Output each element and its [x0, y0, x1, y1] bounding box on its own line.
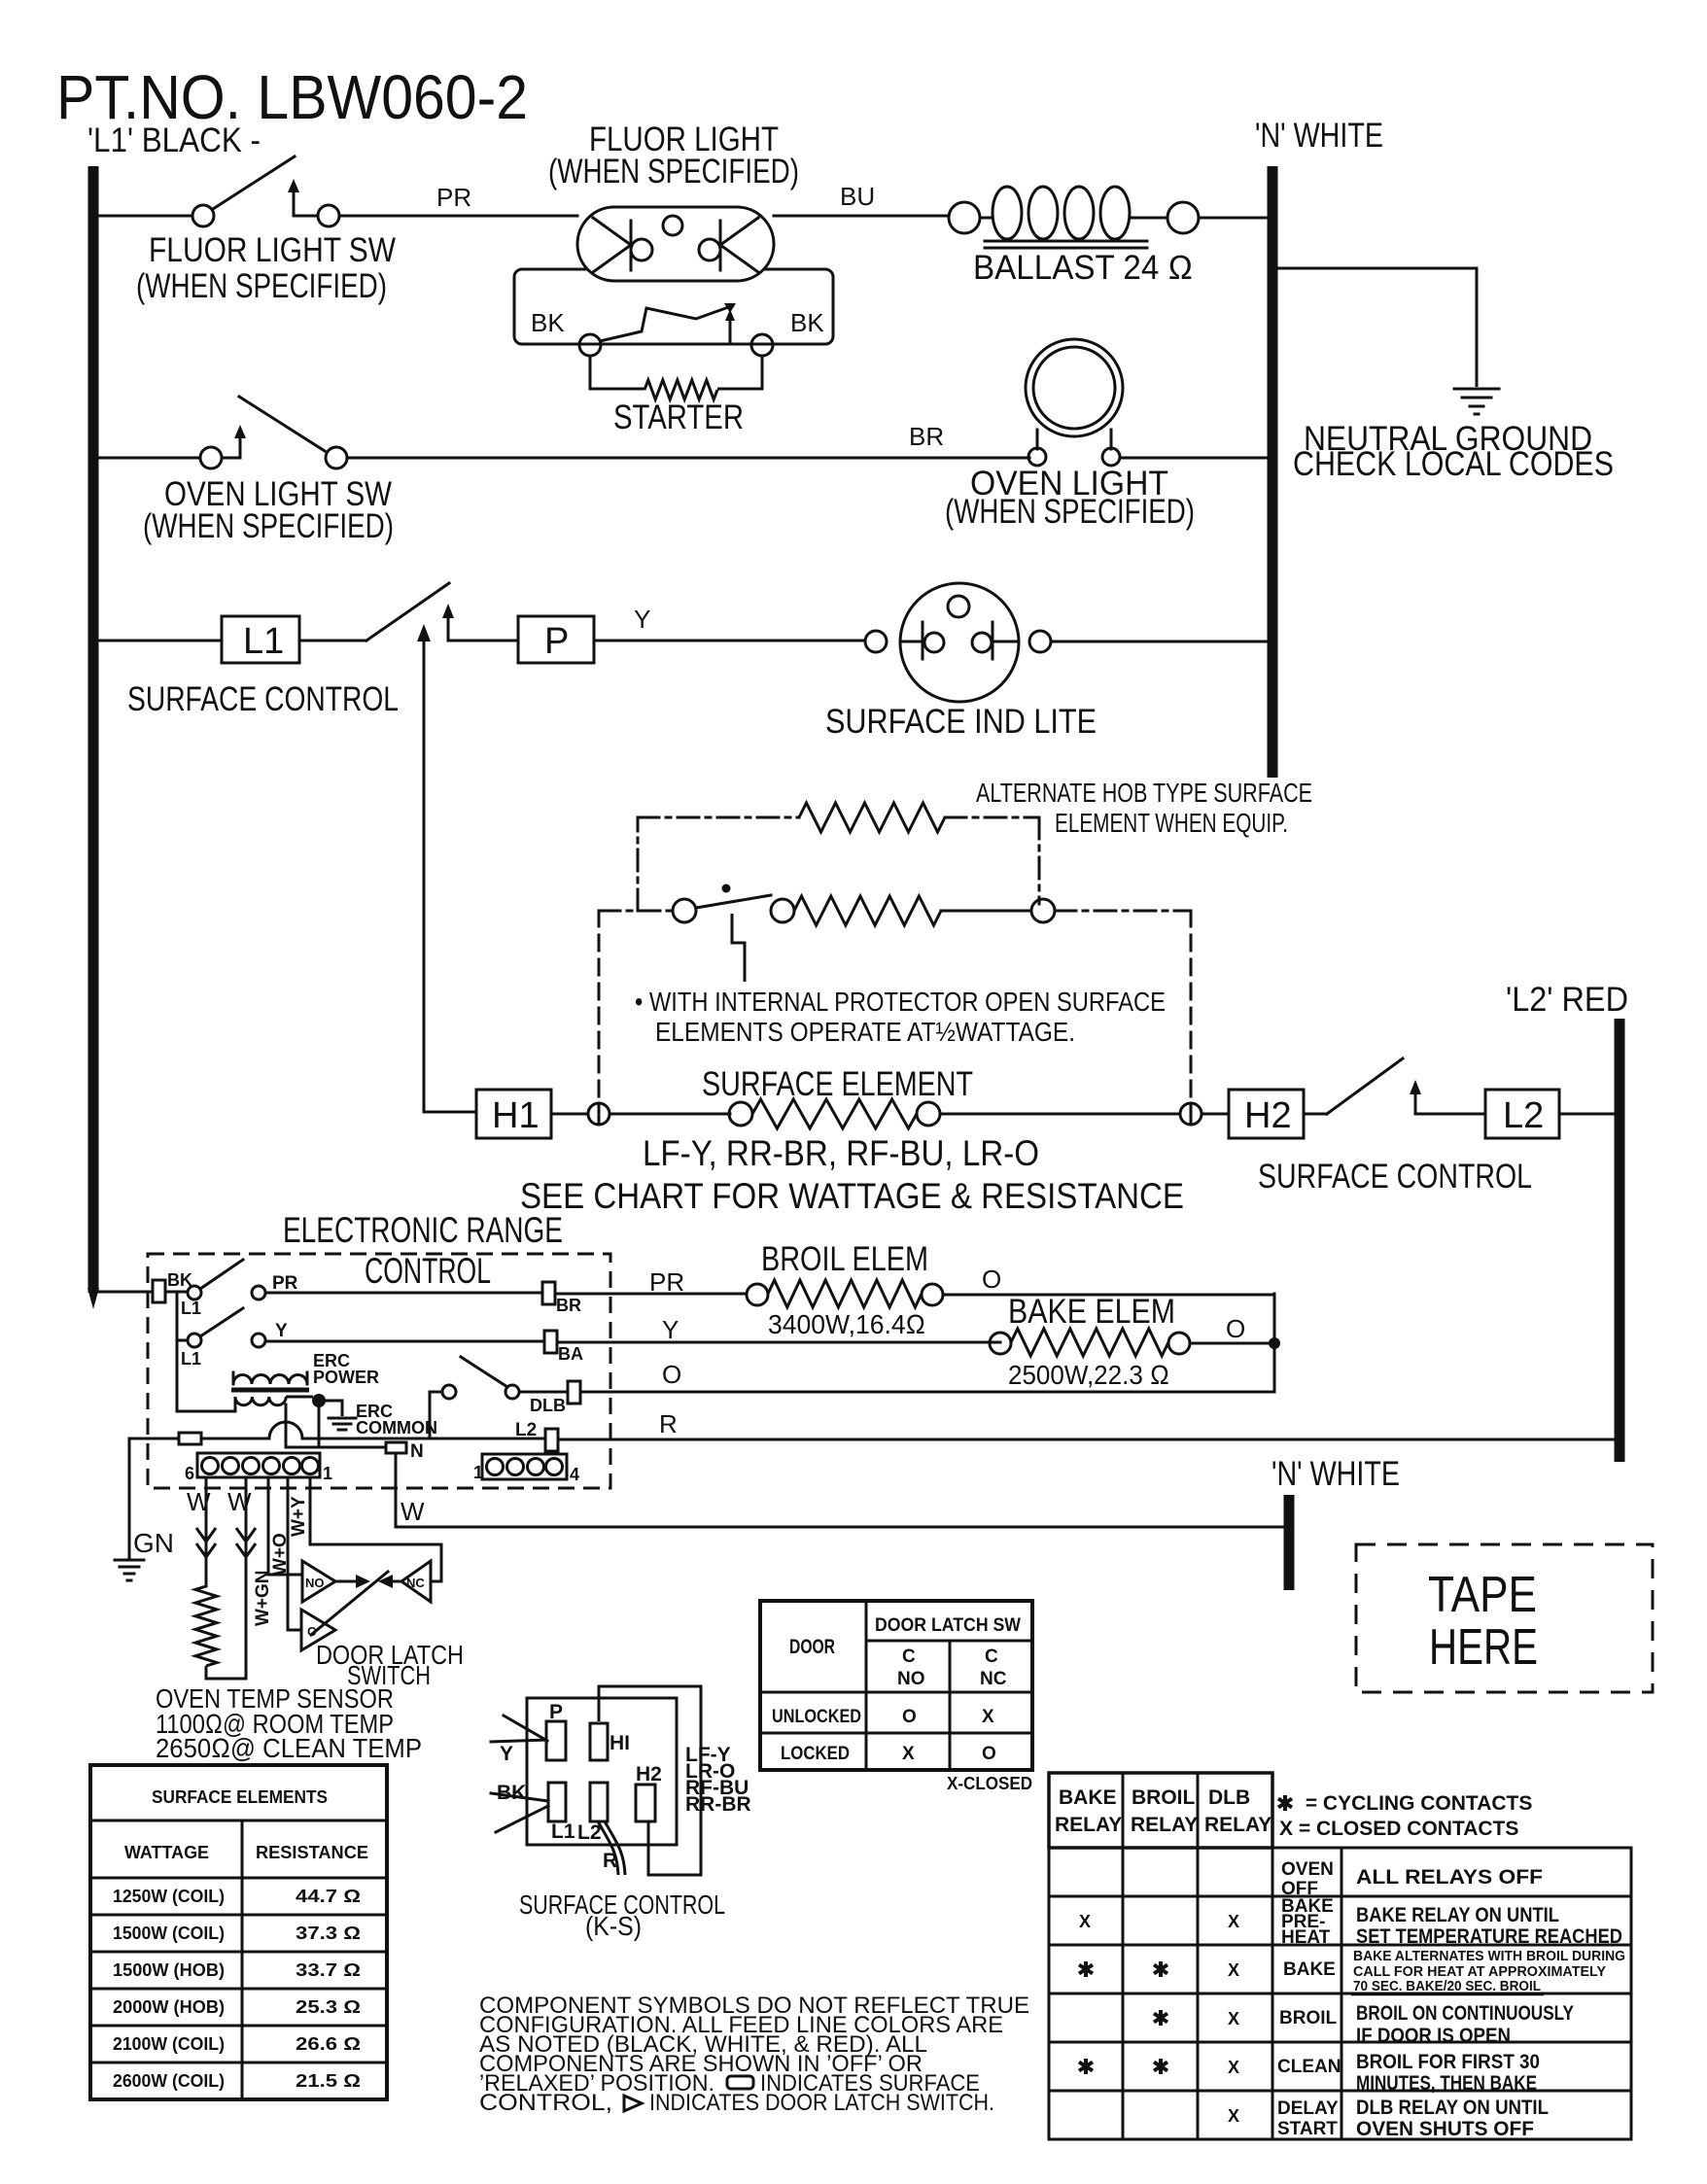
internal protector hook [732, 914, 745, 982]
wire L1 block to switch [299, 640, 366, 642]
wire ballast to N bus [1199, 217, 1268, 220]
svg-text:BALLAST 24 Ω: BALLAST 24 Ω [973, 249, 1193, 287]
lamp pin circle (top center) [663, 216, 682, 235]
svg-text:DLB: DLB [530, 1396, 566, 1415]
svg-text:PR: PR [436, 183, 471, 212]
lead BK to pin L1 [491, 1782, 548, 1832]
block H1 [476, 1090, 551, 1138]
ground GN [115, 1560, 144, 1580]
svg-text:= CYCLING CONTACTS: = CYCLING CONTACTS [1300, 1792, 1532, 1815]
terminal BR [542, 1282, 555, 1304]
svg-text:HERE: HERE [1429, 1619, 1538, 1676]
svg-text:HI: HI [610, 1732, 630, 1754]
svg-text:BAKE: BAKE [1059, 1786, 1117, 1809]
switch surface control pole 2 [1304, 1058, 1431, 1114]
svg-text:44.7 Ω: 44.7 Ω [296, 1887, 361, 1906]
svg-text:1250W (COIL): 1250W (COIL) [113, 1887, 225, 1906]
wire PR: switch to fluor lamp [339, 215, 577, 218]
svg-text:WATTAGE: WATTAGE [124, 1843, 209, 1862]
svg-text:BR: BR [909, 422, 944, 451]
starter box outline [514, 269, 833, 344]
svg-text:Y: Y [500, 1743, 513, 1765]
transformer ERC secondary [235, 1397, 286, 1405]
svg-text:DLB RELAY ON UNTIL: DLB RELAY ON UNTIL [1356, 2097, 1549, 2119]
svg-text:6: 6 [185, 1464, 194, 1483]
wire R row out of box to L2 bus [558, 1439, 1617, 1441]
svg-text:21.5 Ω: 21.5 Ω [296, 2071, 361, 2091]
box TAPE HERE (dashed) [1356, 1544, 1653, 1692]
wire pin1 (W+Y) to NC contact [310, 1477, 441, 1581]
arrow at P wire start [442, 604, 465, 641]
door latch contact NC (triangle) [401, 1561, 431, 1602]
svg-text:X: X [1228, 2058, 1239, 2077]
marks row CLEAN [1079, 2058, 1239, 2077]
svg-text:BK: BK [531, 308, 565, 337]
svg-text:O: O [902, 1707, 917, 1727]
resistor surface element (switched row) [794, 896, 941, 925]
svg-text:ALTERNATE HOB TYPE SURFACE: ALTERNATE HOB TYPE SURFACE [976, 778, 1312, 808]
legend cycling contacts [1278, 1792, 1532, 1815]
wire L1 bus to L1 block [98, 640, 222, 642]
svg-text:NC: NC [980, 1669, 1007, 1689]
junction circle on dashed edge (left) [588, 1103, 610, 1125]
svg-text:L1: L1 [551, 1820, 575, 1843]
resistor alternate HOB surface element [799, 803, 945, 832]
svg-text:SWITCH: SWITCH [347, 1660, 431, 1690]
svg-text:SURFACE CONTROL: SURFACE CONTROL [127, 680, 399, 718]
svg-text:Y: Y [275, 1321, 288, 1341]
svg-text:(WHEN SPECIFIED): (WHEN SPECIFIED) [548, 153, 799, 191]
svg-text:SURFACE CONTROL: SURFACE CONTROL [1258, 1158, 1532, 1196]
svg-text:C: C [902, 1647, 916, 1667]
svg-text:X: X [1228, 2106, 1239, 2126]
switch DLB [430, 1357, 519, 1439]
wire Y row to BA terminal [265, 1340, 544, 1343]
arrow chevrons left wire [196, 1528, 216, 1557]
svg-text:L2: L2 [577, 1821, 602, 1844]
wire L2 block to L2 bus [1559, 1113, 1615, 1116]
svg-text:OVEN: OVEN [1281, 1859, 1334, 1880]
svg-text:O: O [1226, 1314, 1245, 1343]
svg-text:NC: NC [406, 1576, 425, 1590]
svg-text:INDICATES DOOR LATCH SWITCH.: INDICATES DOOR LATCH SWITCH. [649, 2090, 994, 2116]
svg-text:R: R [659, 1409, 678, 1439]
switch FLUOR LIGHT SW [192, 156, 339, 226]
svg-text:BR: BR [556, 1296, 581, 1315]
wire R from pin L2 [598, 1821, 618, 1875]
wire L1 feed to secondary [177, 1397, 235, 1411]
wire actuator link corner to H1 [424, 1111, 476, 1114]
connector 4-pin (door latch) [482, 1454, 567, 1479]
contact circle (right, switch row) [1031, 899, 1055, 922]
table SURFACE ELEMENTS [90, 1765, 387, 2099]
arrow NO output [335, 1575, 370, 1588]
svg-text:O: O [982, 1265, 1001, 1294]
wire left to GN line [129, 1438, 179, 1440]
svg-text:2650Ω@ CLEAN TEMP: 2650Ω@ CLEAN TEMP [156, 1733, 422, 1763]
terminal N [386, 1442, 406, 1453]
svg-text:FLUOR LIGHT SW: FLUOR LIGHT SW [149, 231, 396, 269]
junction dot bake/common [1269, 1337, 1280, 1349]
wire O row out of box [580, 1391, 1274, 1394]
bus N WHITE (right vertical neutral) [1268, 166, 1278, 778]
switch ERC L1/Y [177, 1308, 265, 1347]
svg-text:SURFACE IND LITE: SURFACE IND LITE [825, 703, 1097, 741]
table relay header BAKE/BROIL/DLB RELAY [1049, 1773, 1272, 1848]
wire N from ERC to bottom bus [396, 1453, 1284, 1527]
lamp left electrode [593, 218, 652, 272]
wire H1 to element [551, 1113, 730, 1116]
svg-text:POWER: POWER [313, 1368, 379, 1387]
svg-text:'L1' BLACK -: 'L1' BLACK - [87, 121, 261, 159]
svg-text:BK: BK [790, 308, 824, 337]
pin H1 [590, 1723, 630, 1760]
resistor starter (bottom loop) [590, 356, 644, 389]
table relay mode grid [1049, 1848, 1631, 2139]
block H2 [1229, 1090, 1304, 1138]
svg-text:1500W (COIL): 1500W (COIL) [113, 1924, 225, 1943]
svg-text:1500W (HOB): 1500W (HOB) [113, 1960, 225, 1980]
resistor (left small block) [179, 1433, 201, 1444]
svg-text:CONTROL: CONTROL [365, 1251, 491, 1291]
terminal L2 [545, 1429, 558, 1451]
svg-text:25.3 Ω: 25.3 Ω [296, 1997, 361, 2017]
svg-text:RESISTANCE: RESISTANCE [256, 1843, 368, 1862]
wire PR row to BR terminal [265, 1292, 542, 1295]
svg-text:DELAY: DELAY [1277, 2098, 1339, 2119]
connector SURFACE CONTROL (K-S) body [527, 1698, 677, 1845]
svg-text:OVEN SHUTS OFF: OVEN SHUTS OFF [1356, 2118, 1534, 2140]
wire secondary to junction [286, 1396, 313, 1399]
svg-text:RR-BR: RR-BR [685, 1793, 751, 1816]
svg-text:DLB: DLB [1208, 1786, 1250, 1809]
resistor BROIL ELEM [747, 1280, 943, 1307]
ground neutral (earth symbol) [1454, 389, 1499, 414]
svg-text:C: C [985, 1647, 998, 1667]
wire GN vertical [128, 1439, 131, 1558]
svg-text:(K-S): (K-S) [585, 1911, 642, 1941]
wire arrow to L2 block [1431, 1113, 1485, 1116]
wire element common vertical [1273, 1294, 1276, 1392]
wire junction to ERC COMMON ground [319, 1401, 342, 1416]
svg-text:P: P [544, 621, 569, 662]
wire bake to common [1190, 1342, 1274, 1345]
wire R row with hop over secondary feed [201, 1422, 430, 1439]
arrow chevrons right wire [236, 1528, 256, 1557]
svg-text:MINUTES, THEN BAKE: MINUTES, THEN BAKE [1356, 2072, 1537, 2095]
svg-text:H2: H2 [636, 1763, 662, 1785]
svg-text:X: X [902, 1744, 915, 1764]
svg-text:33.7 Ω: 33.7 Ω [296, 1960, 361, 1980]
svg-text:N: N [410, 1441, 424, 1462]
pin L1 [548, 1783, 575, 1843]
transformer ERC POWER primary [233, 1375, 307, 1384]
svg-text:'N' WHITE: 'N' WHITE [1272, 1455, 1400, 1493]
svg-text:LF-Y, RR-BR, RF-BU, LR-O: LF-Y, RR-BR, RF-BU, LR-O [643, 1133, 1039, 1173]
svg-text:SURFACE ELEMENT: SURFACE ELEMENT [702, 1065, 973, 1103]
wire sensor bottom U [206, 1666, 246, 1679]
dashed box ELECTRONIC RANGE CONTROL [148, 1254, 610, 1488]
svg-text:37.3 Ω: 37.3 Ω [296, 1924, 361, 1943]
wire element to H2 [940, 1113, 1229, 1116]
svg-text:'N' WHITE: 'N' WHITE [1255, 117, 1383, 155]
svg-text:BK: BK [497, 1782, 526, 1804]
pin P [546, 1701, 566, 1760]
svg-text:LOCKED: LOCKED [781, 1744, 850, 1764]
svg-text:Y: Y [634, 605, 650, 634]
switch surface control pole 1 (blade) [366, 583, 449, 641]
block L2 [1485, 1090, 1559, 1138]
wire sensor right (pin 4) [245, 1477, 248, 1679]
starter contact circles [579, 334, 601, 356]
wire oven light to N bus [1120, 457, 1268, 460]
block L1 (surface control contact) [222, 616, 299, 663]
svg-text:W: W [227, 1487, 252, 1516]
svg-text:W+O: W+O [270, 1533, 291, 1576]
svg-text:L2: L2 [1503, 1095, 1544, 1136]
dashed box: surface elements group [599, 911, 1191, 1104]
svg-text:R: R [603, 1850, 617, 1872]
svg-text:X: X [1228, 1960, 1239, 1980]
svg-text:4: 4 [570, 1465, 579, 1484]
svg-text:C: C [307, 1624, 317, 1639]
svg-text:• WITH INTERNAL PROTECTOR OPEN: • WITH INTERNAL PROTECTOR OPEN SURFACE [635, 987, 1166, 1017]
svg-text:26.6 Ω: 26.6 Ω [296, 2034, 361, 2054]
wire P to surface ind lite [465, 640, 518, 642]
svg-text:2600W (COIL): 2600W (COIL) [113, 2071, 225, 2091]
wire N row horizontal [286, 1446, 386, 1449]
surface control actuator link (long arrow to ERC area) [417, 624, 431, 1112]
connector strip 6-pin [197, 1453, 320, 1477]
pin H2 [636, 1763, 662, 1821]
marks row BAKE [1079, 1960, 1239, 1980]
svg-text:L1: L1 [181, 1349, 201, 1369]
svg-text:CHECK LOCAL CODES: CHECK LOCAL CODES [1293, 445, 1614, 483]
lamp right electrode [699, 218, 758, 272]
lead Y to pin P [491, 1716, 547, 1765]
wire H1 to H2 outer loop [599, 1686, 701, 1875]
svg-text:CONTROL,: CONTROL, [479, 2090, 612, 2116]
svg-text:PR: PR [272, 1273, 298, 1294]
svg-text:HEAT: HEAT [1281, 1927, 1331, 1948]
svg-text:BU: BU [840, 182, 875, 211]
svg-text:2100W (COIL): 2100W (COIL) [113, 2034, 225, 2054]
wire secondary bottom down [285, 1404, 288, 1447]
svg-text:BAKE: BAKE [1283, 1959, 1336, 1980]
wire sensor left (pin 6) [205, 1477, 208, 1586]
svg-text:(WHEN SPECIFIED): (WHEN SPECIFIED) [945, 493, 1195, 531]
svg-text:H1: H1 [492, 1095, 540, 1136]
svg-text:CALL FOR HEAT AT APPROXIMATELY: CALL FOR HEAT AT APPROXIMATELY [1353, 1964, 1606, 1980]
wire L1 bus to BK terminal [98, 1291, 153, 1294]
svg-text:L1: L1 [243, 621, 284, 662]
transformer core [231, 1388, 309, 1393]
svg-text:2000W (HOB): 2000W (HOB) [113, 1997, 225, 2017]
wire PR row out of box [555, 1293, 747, 1296]
svg-text:RELAY: RELAY [1131, 1814, 1198, 1836]
svg-text:BROIL: BROIL [1132, 1786, 1196, 1809]
svg-text:X = CLOSED CONTACTS: X = CLOSED CONTACTS [1279, 1818, 1518, 1840]
svg-text:BROIL ELEM: BROIL ELEM [761, 1240, 928, 1278]
svg-text:1: 1 [473, 1463, 483, 1482]
resistor SURFACE ELEMENT (main) [729, 1099, 940, 1128]
wire L1 bus to oven light switch [98, 457, 200, 460]
svg-text:X-CLOSED: X-CLOSED [947, 1774, 1032, 1793]
svg-text:BAKE RELAY ON UNTIL: BAKE RELAY ON UNTIL [1356, 1904, 1559, 1926]
svg-text:BAKE ALTERNATES WITH BROIL DUR: BAKE ALTERNATES WITH BROIL DURING [1353, 1949, 1625, 1964]
svg-text:ALL RELAYS OFF: ALL RELAYS OFF [1356, 1866, 1543, 1889]
wire pin3 (W+O) to NO contact [268, 1477, 302, 1575]
starter actuator arrow [729, 319, 732, 342]
ground ERC COMMON [329, 1418, 356, 1430]
junction dot ERC common [312, 1394, 326, 1407]
wire BR: switch to oven light [347, 457, 1029, 460]
inductor BALLAST [949, 187, 1199, 248]
svg-text:ELEMENT WHEN EQUIP.: ELEMENT WHEN EQUIP. [1055, 808, 1288, 838]
door latch blade (common) [311, 1572, 388, 1635]
terminal BK [153, 1280, 165, 1302]
lamp SURFACE IND LITE [865, 583, 1051, 702]
svg-text:H2: H2 [1244, 1095, 1292, 1136]
svg-text:ELEMENTS OPERATE AT½WATTAGE.: ELEMENTS OPERATE AT½WATTAGE. [655, 1017, 1075, 1047]
wire BU: lamp to ballast [774, 215, 948, 218]
svg-text:BA: BA [558, 1344, 583, 1364]
svg-text:RELAY: RELAY [1204, 1814, 1272, 1836]
svg-text:W+Y: W+Y [289, 1496, 309, 1537]
svg-text:X: X [1079, 1912, 1091, 1931]
svg-text:SET TEMPERATURE REACHED: SET TEMPERATURE REACHED [1356, 1925, 1622, 1948]
svg-text:ELECTRONIC RANGE: ELECTRONIC RANGE [283, 1210, 563, 1250]
svg-text:1: 1 [323, 1464, 332, 1483]
svg-text:P: P [549, 1701, 563, 1723]
lamp OVEN LIGHT (double circle) [1026, 339, 1123, 466]
bus L1 BLACK (left vertical feeder) [88, 166, 99, 1293]
svg-text:IF DOOR IS OPEN: IF DOOR IS OPEN [1356, 2025, 1511, 2047]
terminal DLB [568, 1381, 580, 1404]
wire Y row out of box [557, 1341, 1000, 1344]
wire L1 bus to fluor light switch [98, 215, 192, 218]
starter bimetal blade [600, 305, 734, 341]
junction circle on dashed edge (right) [1180, 1103, 1202, 1125]
bus N WHITE (bottom) [1284, 1495, 1295, 1590]
door latch contact NO (triangle) [302, 1561, 335, 1602]
svg-text:BAKE ELEM: BAKE ELEM [1008, 1293, 1175, 1331]
svg-text:X: X [982, 1707, 994, 1727]
wire pin2 (W+GN) to C contact [288, 1477, 301, 1630]
svg-text:PR: PR [649, 1267, 684, 1297]
door latch contact C (triangle) [301, 1610, 335, 1650]
svg-text:STARTER: STARTER [613, 399, 744, 436]
terminal BA [544, 1331, 557, 1353]
svg-text:'L2' RED: 'L2' RED [1506, 981, 1628, 1019]
svg-text:O: O [662, 1360, 681, 1389]
bus L2 RED (right vertical) [1615, 1019, 1625, 1462]
svg-text:2500W,22.3 Ω: 2500W,22.3 Ω [1008, 1360, 1169, 1390]
svg-text:70 SEC. BAKE/20 SEC. BROIL: 70 SEC. BAKE/20 SEC. BROIL [1353, 1979, 1541, 1994]
svg-text:Y: Y [662, 1315, 679, 1344]
lamp FLUOR LIGHT (stadium body, white fill over starter box) [577, 207, 774, 281]
svg-text:(WHEN SPECIFIED): (WHEN SPECIFIED) [143, 507, 394, 545]
svg-text:DOOR: DOOR [789, 1636, 835, 1658]
wire N bus to neutral ground [1277, 268, 1477, 387]
dash-dot wire: surface element switch row [599, 910, 1191, 913]
svg-text:L1: L1 [181, 1299, 201, 1318]
svg-text:3400W,16.4Ω: 3400W,16.4Ω [768, 1309, 925, 1339]
svg-text:SURFACE ELEMENTS: SURFACE ELEMENTS [152, 1787, 328, 1807]
svg-text:(WHEN SPECIFIED): (WHEN SPECIFIED) [136, 267, 387, 305]
svg-text:TAPE: TAPE [1428, 1567, 1537, 1623]
wire broil to common [943, 1294, 1274, 1297]
svg-text:W+GN: W+GN [253, 1570, 273, 1626]
dash-dot box: alternate HOB element (upper) [638, 817, 1039, 911]
wire junction down to N row [318, 1401, 321, 1447]
block P (pilot contact) [518, 616, 594, 663]
svg-text:START: START [1277, 2119, 1338, 2139]
switch OVEN LIGHT SW [200, 397, 347, 468]
svg-text:DOOR LATCH SW: DOOR LATCH SW [875, 1615, 1021, 1636]
svg-text:UNLOCKED: UNLOCKED [772, 1707, 861, 1727]
svg-text:NO: NO [305, 1576, 325, 1590]
pin L2 [577, 1783, 608, 1844]
arrow NC side [378, 1575, 401, 1588]
svg-text:GN: GN [133, 1528, 174, 1558]
wire surface ind lite to N bus [1051, 641, 1268, 643]
vertical L1 feed inside box [176, 1293, 179, 1411]
svg-text:X: X [1228, 2009, 1239, 2028]
svg-text:SEE CHART FOR WATTAGE & RESIST: SEE CHART FOR WATTAGE & RESISTANCE [520, 1176, 1184, 1216]
switch ERC L1/PR [165, 1260, 265, 1300]
svg-text:RELAY: RELAY [1055, 1814, 1122, 1836]
svg-text:BROIL FOR FIRST 30: BROIL FOR FIRST 30 [1356, 2051, 1540, 2073]
table DOOR / DOOR LATCH SW [760, 1601, 1032, 1770]
switch surface element internal protector [673, 884, 794, 923]
resistor OVEN TEMP SENSOR [195, 1586, 217, 1666]
svg-text:NO: NO [897, 1669, 925, 1689]
svg-text:W: W [401, 1497, 425, 1526]
svg-text:BROIL: BROIL [1279, 2008, 1338, 2028]
svg-text:W: W [187, 1487, 211, 1516]
resistor BAKE ELEM [990, 1329, 1190, 1356]
svg-text:O: O [982, 1744, 996, 1764]
svg-text:X: X [1228, 1912, 1239, 1931]
svg-text:CLEAN: CLEAN [1277, 2057, 1341, 2077]
svg-text:COMMON: COMMON [356, 1418, 437, 1438]
svg-text:BROIL ON CONTINUOUSLY: BROIL ON CONTINUOUSLY [1356, 2002, 1574, 2025]
marks row BROIL [1154, 2009, 1239, 2028]
